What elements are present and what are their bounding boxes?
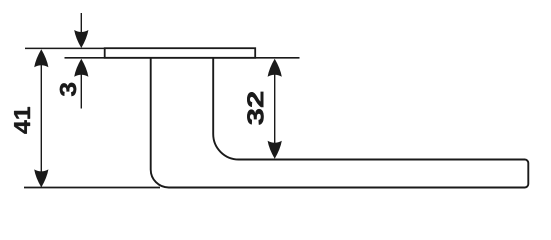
extension line top (rose top surface level)	[25, 47, 106, 49]
label 32	[247, 92, 263, 125]
door face line	[65, 57, 300, 59]
dimension 32: double arrow line	[274, 60, 276, 157]
extension line bottom (lever underside level)	[24, 187, 160, 189]
arrowhead 41 bottom (down)	[34, 169, 48, 187]
label 3	[60, 83, 76, 96]
handle outline: neck + lever	[151, 58, 529, 188]
dimension 3: lower up-arrow	[80, 72, 82, 109]
label 41	[14, 107, 30, 134]
dimension 41: double arrow line	[40, 51, 42, 187]
dimension 3: upper down-arrow	[80, 13, 82, 34]
arrowhead 41 top (up)	[34, 49, 48, 67]
rose plate (escutcheon)	[105, 48, 256, 58]
